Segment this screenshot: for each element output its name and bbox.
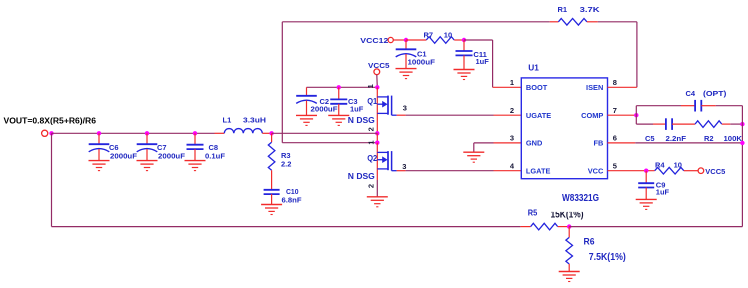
pin names U1 right side: [581, 83, 604, 175]
svg-text:U1: U1: [528, 63, 539, 73]
ground at C2: [296, 115, 317, 125]
wire: VOUT left drop: [51, 133, 53, 226]
label C9 1uF: [656, 180, 670, 196]
labels C5 2.2nF R2 100K: [645, 134, 743, 143]
svg-text:2: 2: [366, 127, 375, 131]
capacitor C8 0.1uF: [187, 131, 204, 160]
capacitor C6 2000uF: [89, 131, 110, 160]
ground at C9: [636, 199, 657, 209]
wire: C5 to R2: [672, 123, 695, 125]
label C2 2000uF: [311, 97, 338, 113]
wire: Q1 gate stub to UGATE: [397, 114, 522, 116]
node: phase node lower (ISEN tap): [375, 141, 379, 145]
svg-text:8: 8: [613, 78, 617, 87]
wire VCC12 to C1 node: [393, 39, 406, 41]
svg-text:2000uF: 2000uF: [158, 152, 185, 161]
ground at Q2 source: [367, 197, 388, 207]
capacitor C4 (OPT): [695, 100, 701, 112]
svg-text:1000uF: 1000uF: [408, 58, 436, 67]
capacitor C2 2000uF: [296, 87, 317, 115]
svg-text:7.5K(1%): 7.5K(1%): [589, 251, 626, 263]
capacitor C10 6.8nF: [264, 190, 280, 205]
svg-text:ISEN: ISEN: [586, 83, 603, 92]
svg-text:10: 10: [674, 160, 682, 169]
pin 2 of Q1 (rotated): [366, 127, 375, 131]
wire: Q2 gate to LGATE: [397, 170, 522, 172]
label C7 2000uF: [157, 143, 185, 161]
wire: right vertical rail: [741, 106, 743, 227]
wire: R2 right: [722, 123, 743, 125]
label VOUT equation: [4, 116, 97, 126]
label W83321G: [562, 193, 599, 204]
svg-text:C4: C4: [686, 89, 696, 98]
node: C3 top: [337, 85, 341, 89]
svg-text:6.8nF: 6.8nF: [282, 196, 302, 205]
ground at C8: [185, 161, 206, 171]
svg-text:UGATE: UGATE: [526, 111, 551, 120]
svg-text:2.2: 2.2: [281, 160, 291, 169]
wire: VCC pin to R4: [608, 170, 655, 172]
port VOUT: [42, 130, 48, 136]
wire: ISEN horizontal to phase node: [282, 142, 377, 144]
svg-text:1: 1: [366, 140, 375, 144]
ground at GND pin: [463, 152, 484, 162]
wire: divider junction to FB rail: [569, 226, 742, 228]
label N DSG (Q1): [348, 116, 375, 125]
node: C9 tap: [644, 169, 648, 173]
label R7 10: [424, 30, 453, 39]
node: phase node upper (L1 side): [375, 131, 379, 135]
svg-text:VCC: VCC: [588, 166, 604, 175]
transistor Q1 (upper N-MOSFET): [377, 87, 396, 133]
op-amp/controller U1 W83321G: [521, 78, 607, 179]
node: VOUT junction: [49, 131, 53, 135]
capacitor C11 1uF: [456, 40, 473, 69]
svg-text:R6: R6: [584, 237, 595, 248]
resistor R5 15K: [531, 223, 570, 230]
svg-text:0.1uF: 0.1uF: [205, 152, 225, 161]
svg-text:Q2: Q2: [367, 154, 377, 163]
label R6 7.5K(1%): [584, 237, 626, 263]
wire: left vertical of ISEN sense loop: [281, 22, 283, 143]
svg-text:7: 7: [613, 106, 617, 115]
inductor L1 3.3uH: [215, 129, 272, 134]
label N DSG (Q2): [348, 172, 375, 181]
svg-text:3.7K: 3.7K: [580, 5, 601, 14]
svg-text:3: 3: [403, 104, 407, 113]
pin 1 of Q2 (rotated): [366, 140, 375, 144]
ground at R6: [559, 272, 580, 282]
resistor R2 100K: [695, 121, 722, 128]
resistor R4 10: [655, 167, 698, 174]
wire: C4 branch right: [701, 105, 742, 107]
pin 3 label of Q2: [402, 162, 406, 171]
svg-text:N DSG: N DSG: [348, 172, 375, 181]
ground at C6: [89, 161, 110, 171]
label Q2: [367, 154, 377, 163]
svg-text:2.2nF: 2.2nF: [666, 134, 687, 143]
capacitor C1 1000uF: [396, 40, 417, 68]
resistor R1: [558, 19, 587, 26]
label C11 1uF: [473, 50, 489, 66]
label C6 2000uF: [109, 143, 137, 161]
node: VCC12/C1 junction: [404, 38, 408, 42]
wire: R1 right to ISEN pin drop: [587, 22, 637, 88]
svg-text:Q1: Q1: [367, 97, 377, 106]
svg-text:3: 3: [510, 134, 514, 143]
label C8 0.1uF: [205, 143, 225, 161]
node: L1 / R3 / phase junction: [269, 131, 273, 135]
svg-text:W83321G: W83321G: [562, 193, 599, 204]
pin names U1 left side: [526, 83, 551, 175]
svg-text:1: 1: [510, 78, 514, 87]
capacitor C9 1uF: [638, 171, 654, 200]
svg-text:(OPT): (OPT): [703, 89, 727, 98]
capacitor C7 2000uF: [137, 131, 158, 160]
svg-text:100K: 100K: [724, 134, 743, 143]
svg-text:R7: R7: [424, 30, 434, 39]
node: comp right top (C5/R2 to C4): [740, 122, 744, 126]
svg-text:3: 3: [402, 162, 406, 171]
svg-text:VOUT=0.8X(R5+R6)/R6: VOUT=0.8X(R5+R6)/R6: [4, 116, 97, 126]
capacitor C5 2.2nF: [666, 118, 672, 130]
node: FB tap on right rail: [740, 141, 744, 145]
label C3 1uF: [348, 97, 364, 113]
svg-text:2000uF: 2000uF: [110, 152, 137, 161]
label C1 1000uF: [408, 50, 436, 67]
svg-text:2: 2: [510, 106, 514, 115]
pin 2 of Q2 (rotated): [366, 184, 375, 188]
label L1 3.3uH: [223, 115, 267, 124]
svg-text:1: 1: [366, 84, 375, 88]
svg-text:R5: R5: [528, 209, 538, 218]
pin 3 label of Q1: [403, 104, 407, 113]
label U1: [528, 63, 539, 73]
svg-text:1uF: 1uF: [476, 57, 490, 66]
node: COMP junction: [634, 113, 638, 117]
wire: C11 node to BOOT pin: [464, 40, 521, 87]
svg-text:C10: C10: [286, 187, 299, 196]
svg-text:R2: R2: [704, 134, 714, 143]
svg-text:10: 10: [444, 30, 452, 39]
ground at C11: [454, 70, 475, 80]
pin numbers U1 right: [613, 78, 617, 170]
svg-text:2000uF: 2000uF: [311, 105, 338, 114]
svg-text:6: 6: [613, 134, 617, 143]
svg-text:R1: R1: [558, 5, 568, 14]
svg-text:R4: R4: [655, 160, 665, 169]
wire: C4 branch left: [636, 105, 695, 107]
wire: GND pin 3 net: [474, 143, 522, 152]
svg-text:BOOT: BOOT: [526, 83, 548, 92]
wire: bottom rail to R5: [52, 226, 531, 228]
label R5 15K(1%) (value top-clipped): [528, 206, 586, 221]
svg-text:VCC5: VCC5: [705, 167, 725, 176]
node: R5/R6 divider junction: [567, 224, 571, 228]
svg-text:5: 5: [613, 161, 617, 170]
svg-text:N DSG: N DSG: [348, 116, 375, 125]
label Q1: [367, 97, 377, 106]
svg-text:COMP: COMP: [581, 111, 603, 120]
ground at C3: [328, 115, 349, 125]
svg-text:3.3uH: 3.3uH: [243, 115, 266, 124]
label R1 3.7K: [558, 5, 601, 14]
wire: C2/C3 decoupling rail: [307, 86, 378, 88]
label C10 6.8nF: [282, 187, 302, 205]
svg-text:GND: GND: [526, 139, 543, 148]
label C4 (OPT): [686, 89, 727, 98]
wire: comp network vertical bridge: [635, 106, 637, 124]
node: Q1 drain / VCC5 junction: [375, 85, 379, 89]
svg-text:1uF: 1uF: [350, 105, 364, 114]
pin 1 of Q1 (rotated): [366, 84, 375, 88]
svg-text:LGATE: LGATE: [526, 166, 551, 175]
capacitor C3 1uF: [330, 87, 347, 115]
pin numbers U1 left: [510, 78, 515, 170]
svg-text:2: 2: [366, 184, 375, 188]
wire: top ISEN net rail (left segment to R1): [282, 21, 558, 23]
svg-text:1uF: 1uF: [656, 188, 670, 197]
label R4 10: [655, 160, 682, 169]
ground at C7: [137, 161, 158, 171]
wire: phase node between Q1 source and Q2 drain: [376, 133, 378, 142]
wire: COMP pin stub: [608, 114, 637, 116]
svg-text:FB: FB: [593, 139, 603, 148]
ground at C1: [396, 69, 417, 79]
transistor Q2 (lower N-MOSFET): [377, 143, 396, 197]
wire: VOUT rail: [52, 132, 215, 134]
wire: C5/R2 branch left: [636, 123, 666, 125]
wire: L1 junction to phase node: [272, 132, 378, 134]
svg-text:L1: L1: [223, 115, 232, 124]
port VCC5 (right): [698, 167, 725, 176]
port VCC12: [360, 36, 393, 45]
svg-text:VCC12: VCC12: [360, 36, 388, 45]
wire: FB net: [608, 142, 743, 144]
wire: ISEN pin stub: [608, 86, 637, 88]
ground at C10: [261, 205, 282, 215]
node: R7/C11 junction: [462, 38, 466, 42]
label R3 2.2: [281, 151, 291, 169]
port VCC5 (top): [368, 61, 390, 75]
resistor R6 7.5K: [566, 227, 573, 272]
wire VCC5 down to Q1 drain: [376, 75, 379, 88]
resistor R3 2.2 (snubber): [268, 133, 275, 189]
resistor R7: [406, 37, 464, 44]
svg-text:VCC5: VCC5: [368, 61, 390, 70]
svg-text:C5: C5: [645, 134, 655, 143]
